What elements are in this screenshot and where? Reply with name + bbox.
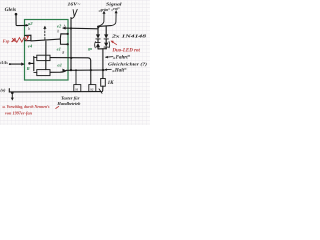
junction S2 drop x lower wire bbox=[90, 69, 92, 71]
arrow Fahrt bbox=[106, 56, 114, 59]
svg-text:„grün“: „grün“ bbox=[99, 7, 110, 12]
wire S1 drop bbox=[75, 70, 77, 84]
red arrow Duo-LED bbox=[111, 41, 117, 45]
contact bracket right bbox=[60, 34, 67, 45]
red tick bbox=[56, 106, 60, 108]
arrowhead into pin R bbox=[21, 62, 24, 65]
svg-text:„Fahrt“: „Fahrt“ bbox=[113, 55, 130, 61]
junction dot pin right upper bbox=[67, 33, 69, 35]
svg-text:2x 1N4148: 2x 1N4148 bbox=[110, 33, 147, 38]
LED red (down) bbox=[104, 43, 108, 47]
svg-text:(o): (o) bbox=[0, 88, 6, 93]
diode D2 bbox=[104, 34, 108, 38]
svg-text:Taster für: Taster für bbox=[61, 95, 80, 100]
svg-text:Gleis: Gleis bbox=[5, 7, 17, 13]
wire Gleis down bbox=[16, 15, 28, 26]
LED pair bracket left bbox=[94, 42, 97, 48]
coil bracket left bbox=[33, 56, 35, 70]
junction rail end at lower wire bbox=[70, 69, 72, 71]
contact common bar bbox=[31, 39, 60, 41]
arrows for Fahrt / Halt bbox=[104, 56, 113, 71]
junction rail x coil wire bbox=[70, 57, 72, 59]
svg-text:S2: S2 bbox=[90, 87, 94, 91]
wire to rot corner bbox=[98, 25, 111, 28]
svg-text:Handbetrieb: Handbetrieb bbox=[56, 101, 81, 106]
junction S1 drop bbox=[75, 69, 77, 71]
svg-text:t1/4s: t1/4s bbox=[0, 61, 8, 65]
svg-text:Gleichrichter (?): Gleichrichter (?) bbox=[108, 62, 148, 67]
rail end arrow mark bbox=[99, 89, 102, 93]
arrow Halt bbox=[105, 68, 112, 70]
svg-text:R: R bbox=[27, 66, 30, 71]
wire down arrow from rail bbox=[11, 92, 13, 99]
armature to coil vertical bbox=[45, 41, 47, 69]
red wavy arrow Fsp bbox=[11, 36, 28, 42]
red x mark bbox=[12, 38, 15, 42]
svg-text:e1: e1 bbox=[57, 46, 61, 51]
svg-text:b: b bbox=[57, 30, 59, 34]
svg-text:Signal: Signal bbox=[106, 1, 123, 6]
contact bracket left bbox=[25, 35, 31, 41]
junction rail x top rail bbox=[70, 27, 72, 29]
supply vertical rail bbox=[70, 18, 72, 70]
svg-text:a2: a2 bbox=[28, 21, 33, 26]
green pin labels bbox=[27, 21, 93, 71]
arrowhead on lower wire bbox=[62, 69, 65, 72]
wire resistor to rail bbox=[102, 86, 103, 92]
wire LED chain down bbox=[102, 49, 104, 79]
pushbutton S1 box bbox=[74, 85, 81, 92]
wire pin e2 to supply rail bbox=[63, 27, 98, 30]
coil bottom body bbox=[37, 70, 50, 76]
svg-text:1K: 1K bbox=[108, 81, 115, 86]
svg-text:u. Vorschlag, durch Nennen’s: u. Vorschlag, durch Nennen’s bbox=[3, 105, 51, 109]
svg-text:von 1997er-fan: von 1997er-fan bbox=[5, 111, 32, 115]
pushbutton S2 box bbox=[89, 85, 96, 92]
black small pin letters bbox=[28, 24, 65, 54]
svg-text:a1: a1 bbox=[57, 63, 62, 68]
svg-text:e4: e4 bbox=[28, 44, 33, 49]
diode D1 bbox=[96, 34, 100, 38]
svg-text:Fsp: Fsp bbox=[3, 39, 10, 44]
svg-text:16V~: 16V~ bbox=[68, 2, 81, 7]
arrowhead into pin a2 bbox=[26, 24, 29, 27]
svg-text:„Halt“: „Halt“ bbox=[112, 68, 127, 74]
LED join bar bbox=[98, 48, 106, 50]
resistor 1K body bbox=[101, 79, 106, 87]
node coil pin dot bbox=[28, 62, 31, 65]
LED pair bracket right bbox=[108, 42, 111, 48]
svg-text:e2: e2 bbox=[57, 23, 62, 28]
svg-text:b: b bbox=[28, 27, 30, 31]
arrowhead at pin e2 bbox=[62, 27, 65, 30]
armature dashed link bbox=[44, 31, 46, 39]
coil bracket stubs bbox=[34, 58, 37, 73]
relay module outline (green) bbox=[25, 20, 69, 81]
svg-text:8: 8 bbox=[62, 51, 64, 55]
wire left R pin bbox=[10, 63, 24, 65]
junction chain x relay wire bbox=[102, 69, 104, 71]
bottom rail bbox=[9, 89, 100, 92]
relay armature arrow (up) bbox=[44, 27, 46, 30]
Y fork to 16V~ bbox=[71, 9, 77, 18]
svg-text:„rot“: „rot“ bbox=[111, 6, 119, 11]
wire rot arrow bbox=[111, 13, 116, 26]
coil top body bbox=[37, 55, 50, 60]
svg-text:gn: gn bbox=[87, 46, 93, 51]
paper background bbox=[0, 0, 150, 125]
node Gleis terminal dot bbox=[15, 13, 18, 16]
diode branch left stem bbox=[97, 27, 99, 35]
svg-text:Duo-LED rot: Duo-LED rot bbox=[111, 49, 140, 54]
diode branch right stem bbox=[105, 26, 107, 35]
wire bottom coil out bbox=[50, 70, 105, 72]
svg-text:S1: S1 bbox=[75, 87, 79, 91]
junction dot pin right lower bbox=[67, 43, 69, 45]
wire top coil to S2 drop bbox=[50, 58, 91, 85]
coil pin stub bbox=[29, 62, 33, 64]
wire gruen arrow bbox=[98, 13, 104, 26]
node signal junction dot bbox=[97, 26, 100, 29]
LED green (up) bbox=[96, 42, 100, 44]
